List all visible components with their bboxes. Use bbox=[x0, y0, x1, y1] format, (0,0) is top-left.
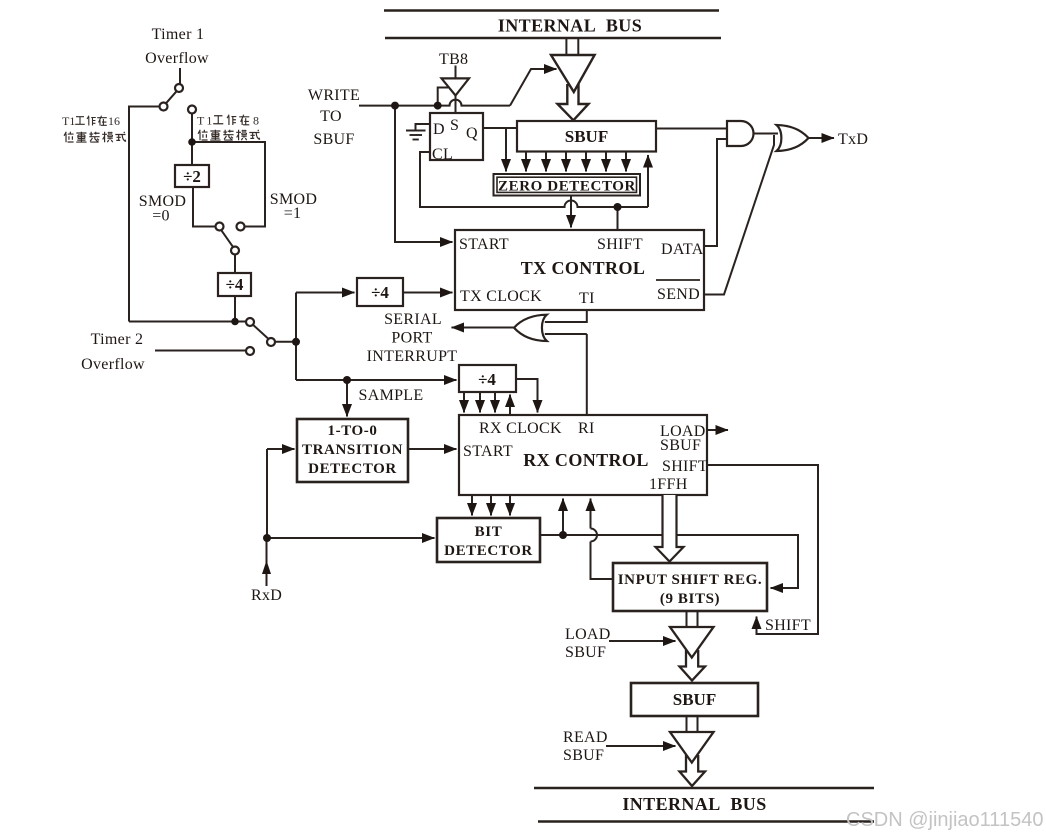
svg-text:16: 16 bbox=[108, 114, 120, 128]
svg-text:INTERNAL BUS: INTERNAL BUS bbox=[498, 16, 642, 36]
svg-text:RxD: RxD bbox=[251, 587, 282, 604]
svg-text:CSDN @jinjiao111540: CSDN @jinjiao111540 bbox=[846, 809, 1043, 831]
svg-text:START: START bbox=[463, 443, 513, 460]
svg-text:SBUF: SBUF bbox=[673, 690, 716, 709]
svg-text:8: 8 bbox=[253, 114, 259, 128]
svg-text:÷4: ÷4 bbox=[226, 275, 244, 294]
svg-text:TRANSITION: TRANSITION bbox=[302, 442, 403, 458]
svg-text:RI: RI bbox=[578, 420, 595, 437]
svg-text:LOAD: LOAD bbox=[565, 626, 611, 643]
svg-text:SERIAL: SERIAL bbox=[384, 311, 442, 328]
svg-text:INTERRUPT: INTERRUPT bbox=[367, 348, 458, 365]
svg-text:T1: T1 bbox=[197, 114, 214, 128]
svg-text:INPUT SHIFT REG.: INPUT SHIFT REG. bbox=[618, 572, 763, 588]
svg-text:SAMPLE: SAMPLE bbox=[359, 387, 424, 404]
svg-text:D: D bbox=[433, 121, 445, 138]
svg-text:Timer 2: Timer 2 bbox=[91, 331, 144, 348]
svg-text:Timer 1: Timer 1 bbox=[152, 26, 205, 43]
svg-text:Overflow: Overflow bbox=[81, 356, 145, 373]
svg-text:1FFH: 1FFH bbox=[649, 476, 688, 493]
svg-text:÷2: ÷2 bbox=[183, 167, 201, 186]
svg-text:÷4: ÷4 bbox=[478, 370, 496, 389]
svg-text:Overflow: Overflow bbox=[145, 50, 209, 67]
svg-text:BIT: BIT bbox=[475, 524, 503, 540]
svg-text:ZERO DETECTOR: ZERO DETECTOR bbox=[498, 179, 636, 195]
svg-text:SBUF: SBUF bbox=[563, 747, 604, 764]
svg-text:DETECTOR: DETECTOR bbox=[308, 461, 397, 477]
svg-text:TB8: TB8 bbox=[439, 51, 468, 68]
svg-text:SEND: SEND bbox=[657, 286, 700, 303]
svg-text:RX CLOCK: RX CLOCK bbox=[479, 420, 562, 437]
svg-text:SBUF: SBUF bbox=[660, 437, 701, 454]
svg-text:Q: Q bbox=[466, 125, 478, 142]
svg-text:SBUF: SBUF bbox=[565, 644, 606, 661]
svg-text:T1: T1 bbox=[62, 114, 75, 128]
svg-text:TI: TI bbox=[579, 290, 595, 307]
svg-text:INTERNAL BUS: INTERNAL BUS bbox=[622, 794, 766, 814]
svg-text:RX CONTROL: RX CONTROL bbox=[523, 450, 649, 470]
svg-text:TX CONTROL: TX CONTROL bbox=[521, 258, 646, 278]
svg-text:SHIFT: SHIFT bbox=[662, 458, 708, 475]
svg-text:=1: =1 bbox=[284, 205, 302, 222]
svg-text:SBUF: SBUF bbox=[565, 127, 608, 146]
svg-text:SHIFT: SHIFT bbox=[765, 617, 811, 634]
svg-text:DATA: DATA bbox=[661, 241, 704, 258]
svg-text:READ: READ bbox=[563, 729, 608, 746]
svg-text:÷4: ÷4 bbox=[371, 283, 389, 302]
svg-text:SBUF: SBUF bbox=[313, 131, 354, 148]
svg-text:TO: TO bbox=[320, 108, 342, 125]
svg-text:PORT: PORT bbox=[391, 330, 432, 347]
svg-text:WRITE: WRITE bbox=[308, 87, 360, 104]
svg-text:=0: =0 bbox=[152, 208, 170, 225]
svg-text:(9 BITS): (9 BITS) bbox=[660, 591, 720, 607]
svg-text:1-TO-0: 1-TO-0 bbox=[328, 423, 378, 439]
svg-text:S: S bbox=[450, 117, 459, 134]
svg-text:DETECTOR: DETECTOR bbox=[444, 543, 533, 559]
svg-text:START: START bbox=[459, 236, 509, 253]
svg-text:TxD: TxD bbox=[838, 131, 868, 148]
svg-text:SHIFT: SHIFT bbox=[597, 236, 643, 253]
svg-text:CL: CL bbox=[432, 146, 453, 163]
svg-text:TX CLOCK: TX CLOCK bbox=[460, 288, 542, 305]
